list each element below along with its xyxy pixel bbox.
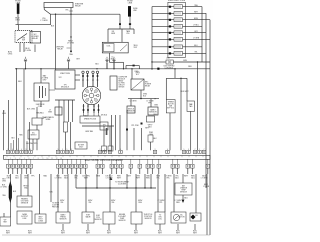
svg-text:SENSOR: SENSOR: [21, 202, 29, 204]
svg-text:2: 2: [10, 158, 11, 160]
svg-text:ORG: ORG: [15, 20, 20, 22]
svg-text:MODULE: MODULE: [61, 86, 70, 88]
svg-text:10: 10: [47, 158, 49, 160]
svg-text:LINK: LINK: [128, 2, 133, 4]
svg-text:6: 6: [29, 158, 30, 160]
svg-text:GRN/: GRN/: [143, 93, 148, 95]
svg-text:SELF: SELF: [38, 216, 42, 218]
svg-text:PPL: PPL: [159, 202, 162, 204]
svg-text:5: 5: [184, 149, 185, 151]
svg-text:MODULE: MODULE: [119, 78, 125, 80]
svg-text:6: 6: [104, 149, 105, 151]
svg-text:RED/BLU: RED/BLU: [36, 112, 44, 114]
svg-text:7: 7: [204, 149, 205, 151]
svg-text:RED WHT: RED WHT: [180, 91, 189, 93]
svg-text:3: 3: [15, 158, 16, 160]
svg-text:PRESS: PRESS: [60, 216, 66, 218]
svg-text:6: 6: [167, 149, 168, 151]
svg-text:SW: SW: [22, 39, 25, 41]
svg-text:4: 4: [30, 149, 31, 151]
svg-text:SENSOR: SENSOR: [95, 219, 103, 221]
svg-text:SERVO: SERVO: [30, 134, 37, 136]
svg-text:SENSOR: SENSOR: [145, 218, 153, 220]
svg-text:ELECTRONIC CONTROL ASSEMBLY: ELECTRONIC CONTROL ASSEMBLY: [85, 159, 124, 162]
svg-text:4: 4: [120, 149, 121, 151]
svg-text:B+ FEED: B+ FEED: [119, 82, 126, 84]
svg-text:CLUSTER: CLUSTER: [118, 184, 127, 186]
svg-text:5: 5: [24, 158, 25, 160]
svg-text:4: 4: [21, 149, 22, 151]
svg-text:SHOWN: SHOWN: [119, 86, 125, 88]
svg-text:TEST: TEST: [3, 221, 7, 223]
svg-text:PPL: PPL: [148, 102, 152, 104]
svg-text:4: 4: [19, 158, 20, 160]
svg-text:RELAY: RELAY: [57, 48, 63, 51]
svg-text:LT GRN: LT GRN: [0, 186, 7, 188]
svg-text:SENSOR: SENSOR: [127, 110, 135, 112]
svg-text:GRN: GRN: [96, 175, 101, 177]
svg-text:YEL: YEL: [166, 177, 170, 179]
svg-text:POSITION: POSITION: [144, 216, 153, 218]
svg-text:TEMP: TEMP: [181, 189, 186, 191]
svg-text:LT BLU: LT BLU: [193, 25, 200, 27]
svg-text:WHT: WHT: [145, 127, 149, 129]
svg-text:9: 9: [188, 149, 189, 151]
svg-text:COIL: COIL: [158, 218, 162, 220]
svg-text:POWER: POWER: [145, 83, 152, 85]
svg-text:CLUSTER: CLUSTER: [52, 204, 60, 206]
svg-text:PRM GND: PRM GND: [52, 206, 60, 208]
svg-text:YEL: YEL: [194, 52, 197, 54]
svg-text:9: 9: [26, 149, 27, 151]
svg-text:5: 5: [67, 149, 68, 151]
svg-text:3: 3: [110, 149, 111, 151]
svg-text:ORG: ORG: [138, 202, 143, 204]
svg-text:9: 9: [62, 149, 63, 151]
svg-text:TEMP: TEMP: [120, 218, 125, 220]
svg-text:5: 5: [58, 149, 59, 151]
svg-text:LT GRN: LT GRN: [193, 38, 200, 40]
svg-text:YEL: YEL: [60, 202, 63, 204]
svg-text:TO INSTR: TO INSTR: [52, 202, 60, 204]
svg-text:YEL: YEL: [65, 10, 69, 12]
svg-text:BYP SOL: BYP SOL: [167, 107, 174, 109]
svg-text:8: 8: [38, 158, 39, 160]
svg-text:9: 9: [8, 149, 9, 151]
svg-text:BLK ORG: BLK ORG: [27, 108, 36, 110]
svg-text:3: 3: [155, 149, 156, 151]
svg-text:2: 2: [199, 149, 200, 151]
svg-text:RELAY: RELAY: [75, 4, 82, 7]
svg-text:COMPUTER: COMPUTER: [119, 76, 129, 78]
svg-text:YEL: YEL: [126, 33, 130, 35]
svg-text:VIP: VIP: [4, 219, 7, 221]
svg-text:12: 12: [56, 158, 58, 160]
svg-text:MOTOR: MOTOR: [178, 216, 185, 218]
svg-text:4: 4: [12, 149, 13, 151]
svg-text:LT GRN: LT GRN: [203, 186, 210, 188]
svg-text:SPARK PLUGS: SPARK PLUGS: [84, 117, 97, 120]
svg-text:FUEL INJECTORS: FUEL INJECTORS: [168, 0, 186, 2]
svg-text:LT GRN: LT GRN: [41, 20, 49, 22]
svg-text:7: 7: [33, 158, 34, 160]
svg-text:YEL: YEL: [111, 202, 114, 204]
svg-text:WIRE: WIRE: [46, 119, 52, 121]
svg-text:ORG: ORG: [2, 180, 7, 182]
svg-text:RED: RED: [146, 177, 151, 179]
svg-text:9: 9: [42, 158, 43, 160]
svg-text:LT GRN: LT GRN: [67, 42, 75, 44]
svg-text:PPL PNK: PPL PNK: [131, 125, 139, 127]
svg-text:TEST: TEST: [38, 218, 42, 220]
svg-text:INJ: INJ: [195, 215, 198, 217]
svg-text:ENGINE: ENGINE: [119, 214, 126, 216]
svg-text:LT GRN: LT GRN: [24, 50, 32, 52]
svg-text:CIRCUIT: CIRCUIT: [119, 84, 125, 86]
svg-text:GRN: GRN: [111, 33, 116, 35]
svg-text:2: 2: [100, 149, 101, 151]
svg-text:BLK WHT/PPL: BLK WHT/PPL: [26, 143, 38, 145]
svg-text:1: 1: [6, 158, 7, 160]
svg-text:LT GRN: LT GRN: [55, 177, 62, 179]
svg-text:9: 9: [17, 149, 18, 151]
svg-text:CONN: CONN: [38, 220, 44, 222]
svg-text:11: 11: [51, 158, 53, 160]
svg-text:RELAY: RELAY: [32, 37, 39, 40]
svg-text:PPL: PPL: [31, 175, 35, 177]
svg-text:THROTTLE: THROTTLE: [144, 214, 154, 216]
svg-text:SENSOR: SENSOR: [60, 218, 68, 220]
svg-text:GRN TAN: GRN TAN: [85, 130, 93, 133]
svg-text:YEL: YEL: [88, 202, 91, 204]
svg-text:7: 7: [195, 149, 196, 151]
svg-text:9: 9: [71, 149, 72, 151]
svg-text:SENSOR: SENSOR: [180, 191, 188, 193]
svg-text:TEST: TEST: [134, 47, 138, 49]
svg-text:ORG: ORG: [8, 53, 13, 55]
svg-text:DK BLU: DK BLU: [101, 114, 108, 116]
svg-text:THERM: THERM: [168, 101, 174, 103]
svg-text:COIL: COIL: [106, 45, 110, 47]
svg-text:START RUN: START RUN: [60, 72, 71, 75]
svg-text:13: 13: [60, 158, 62, 160]
svg-text:SENSOR: SENSOR: [119, 220, 127, 222]
svg-text:LT GRN: LT GRN: [130, 100, 137, 102]
svg-text:SENSOR: SENSOR: [149, 111, 157, 113]
